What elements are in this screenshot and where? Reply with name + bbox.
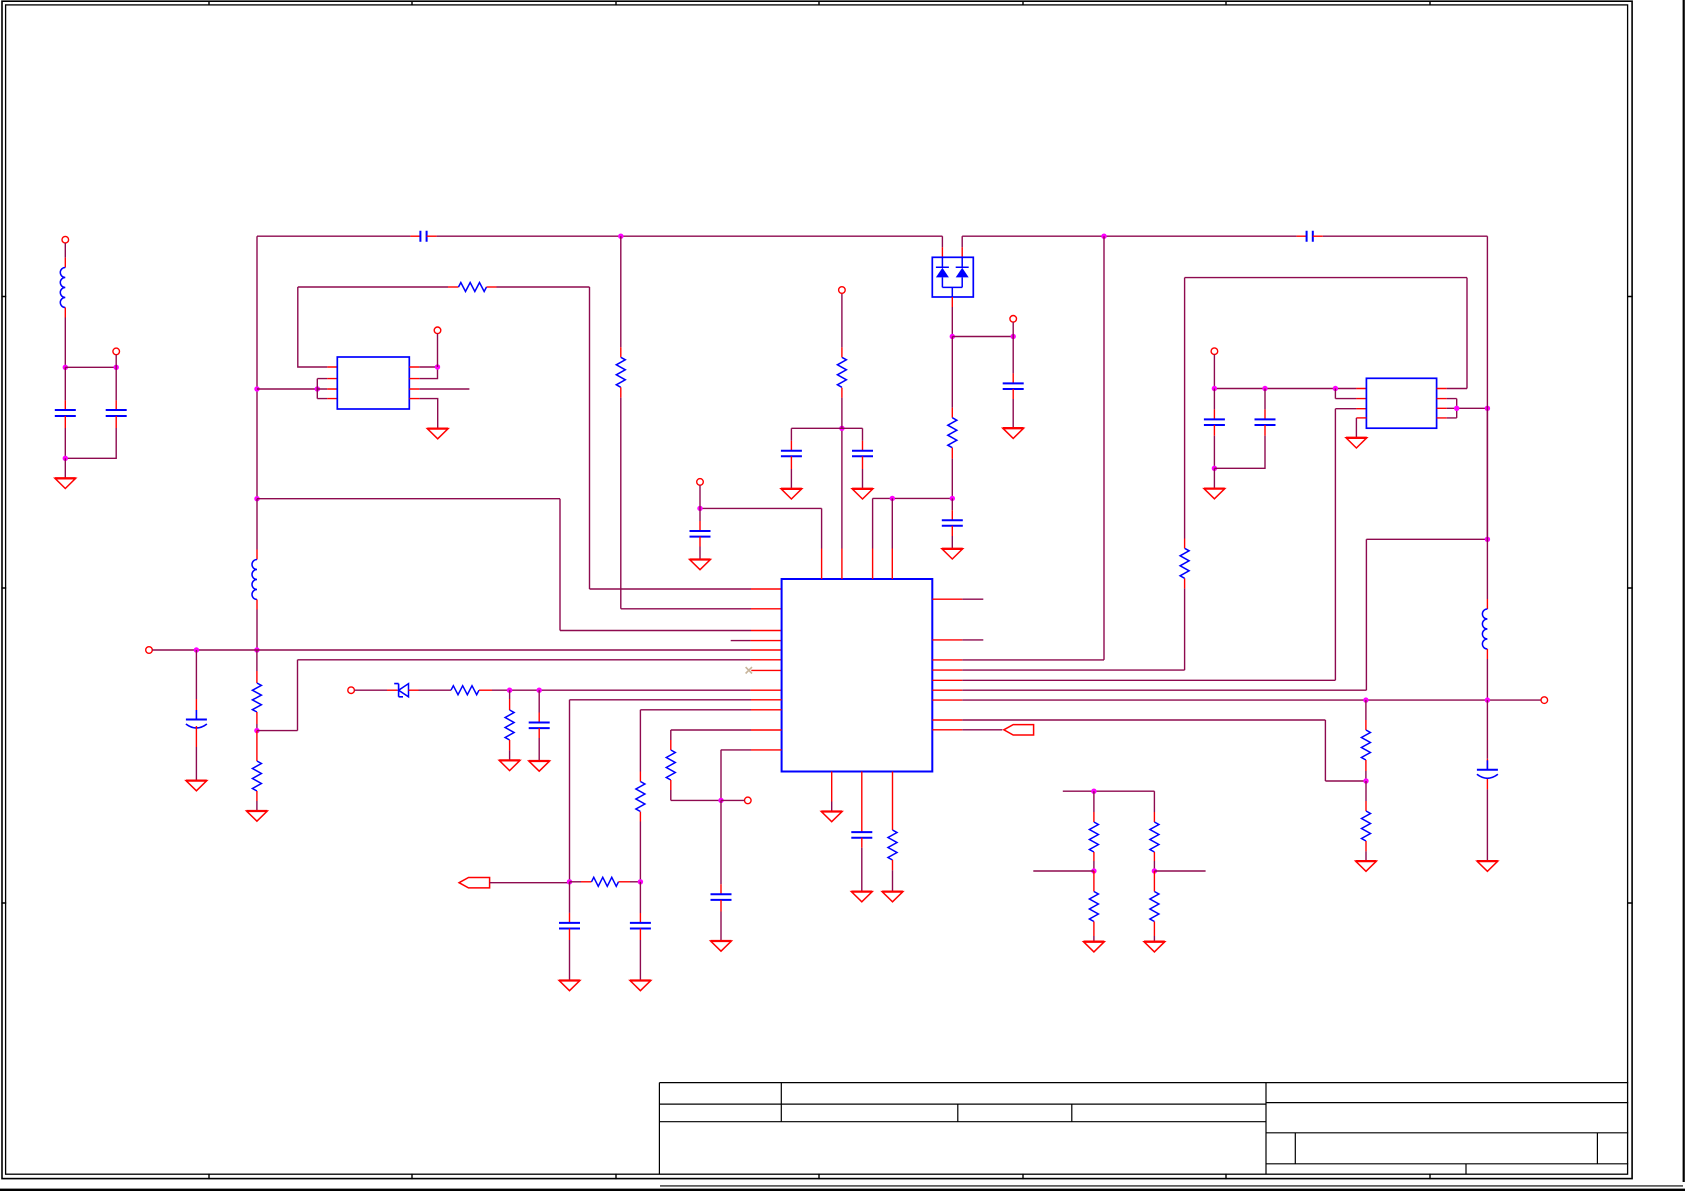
node junction (1212, 386, 1217, 391)
wire (256, 236, 258, 499)
wire (951, 526, 953, 536)
wire net rowR6 (962, 408, 1487, 690)
wire (410, 235, 420, 237)
inductor L3 (1482, 609, 1487, 649)
node junction (1454, 406, 1459, 411)
wire (720, 900, 722, 912)
wire top rail far right (1323, 235, 1488, 237)
capacitor C3 series (420, 231, 426, 242)
wire (479, 689, 492, 691)
ground (427, 429, 448, 439)
resistor R6 (451, 686, 479, 695)
resistor R16 (1089, 822, 1098, 852)
ground (559, 981, 580, 991)
pin stub (861, 772, 863, 833)
wire (873, 498, 953, 548)
connector J3 (1010, 316, 1017, 323)
resistor R15 (1362, 811, 1371, 841)
resistor R5 (252, 761, 261, 791)
wire (538, 690, 540, 712)
wire (952, 336, 1013, 338)
wire (1365, 700, 1367, 720)
wire feedback top (298, 286, 448, 288)
pin stub (932, 719, 962, 721)
wire (1486, 539, 1488, 599)
wire (1184, 539, 1186, 549)
pin stub (751, 749, 782, 751)
wire (892, 860, 894, 870)
pin stub (932, 669, 962, 671)
wire (257, 499, 751, 631)
capacitor C15 (851, 832, 872, 838)
connector J9 (839, 287, 846, 294)
wire (1012, 322, 1014, 336)
node junction (1152, 868, 1157, 873)
wire net U3 row1 (1214, 388, 1356, 390)
wire (115, 416, 117, 428)
wire (951, 448, 953, 459)
ground (1356, 861, 1377, 871)
connector J5 (146, 647, 153, 654)
wire top rail right (962, 235, 1296, 237)
resistor R8 (636, 782, 645, 812)
wire (1365, 781, 1367, 801)
wire (509, 690, 511, 699)
wire (670, 780, 672, 790)
pin stub (831, 772, 833, 802)
wire U2 pin stub free (419, 388, 469, 390)
wire U2 left loop (317, 379, 327, 399)
pin stub (891, 549, 893, 580)
capacitor C11 (690, 531, 711, 537)
wire net rowR4 (962, 588, 1184, 670)
wire (951, 498, 953, 510)
node junction (254, 496, 259, 501)
node junction (890, 496, 895, 501)
wire (256, 600, 258, 610)
wire net rowR5 (962, 409, 1335, 681)
pin stub (932, 689, 962, 691)
node junction (507, 688, 512, 693)
page bottom edge bar (0, 1186, 1685, 1191)
node junction (638, 879, 643, 884)
wire top rail mid (437, 235, 943, 237)
node junction (114, 365, 119, 370)
port P2 (459, 878, 490, 888)
node junction (194, 647, 199, 652)
IC U2 (337, 357, 409, 409)
wire (1213, 425, 1215, 436)
capacitor C12 (781, 451, 802, 457)
wire (1213, 468, 1215, 488)
connector J6 (348, 687, 355, 694)
wire (841, 347, 843, 357)
wire (790, 428, 792, 440)
pin stub (751, 669, 781, 671)
wire net row12 (721, 749, 751, 751)
port P1 (1004, 725, 1034, 735)
wire (962, 729, 1002, 731)
node junction (1363, 778, 1368, 783)
wire (862, 428, 864, 440)
wire (509, 740, 511, 750)
wire (437, 334, 439, 367)
capacitor C18 polarized (1477, 760, 1498, 778)
ground (851, 892, 872, 902)
wire net row5 (152, 649, 750, 651)
border zone ticks top (209, 1, 1430, 6)
node junction (254, 386, 259, 391)
IC U1 (782, 579, 933, 772)
wire U3 gnd pin (1356, 417, 1366, 419)
pin stub (932, 659, 962, 661)
resistor R13 (1180, 548, 1189, 578)
zener diode D2 (394, 684, 408, 697)
wire (1486, 408, 1488, 539)
connector J2 (113, 348, 120, 355)
wire (409, 689, 419, 691)
title block (659, 1083, 1628, 1175)
connector J1 (62, 236, 69, 243)
wire (720, 800, 722, 884)
wire (256, 791, 258, 801)
wire (1297, 235, 1307, 237)
pin stub (932, 729, 962, 731)
wire (1153, 791, 1155, 812)
wire stub row4 (731, 640, 751, 642)
wire (721, 799, 745, 801)
ground (55, 478, 76, 488)
wire (1063, 790, 1155, 792)
wire (1447, 407, 1488, 409)
wire (1033, 870, 1094, 872)
node junction (1101, 234, 1106, 239)
node junction (567, 879, 572, 884)
wire (619, 881, 631, 883)
node junction (63, 365, 68, 370)
node junction (697, 506, 702, 511)
capacitor C10 (630, 923, 651, 929)
ground (852, 489, 873, 499)
ground (186, 781, 207, 791)
ground (882, 892, 903, 902)
resistor R10 (592, 877, 619, 886)
wire (1486, 236, 1488, 408)
wire (700, 508, 822, 548)
wire (720, 750, 722, 801)
wire (1486, 649, 1488, 659)
border zone ticks left (1, 297, 6, 904)
pin stub (751, 709, 782, 711)
wire (1335, 408, 1356, 410)
wire (941, 236, 943, 247)
wire (195, 650, 197, 699)
pin stub (892, 772, 894, 831)
wire (639, 710, 641, 772)
wire (620, 387, 622, 397)
wire (257, 388, 317, 390)
pin stub (751, 630, 782, 632)
wire (1093, 922, 1095, 937)
pin stub (751, 588, 782, 590)
node junction (718, 798, 723, 803)
pin stub (751, 699, 782, 701)
wire net row6 (257, 660, 751, 731)
wire (64, 243, 66, 258)
wire (427, 235, 437, 237)
wire (1012, 337, 1014, 374)
wire (891, 498, 893, 548)
pin stubs U3 left (1356, 389, 1366, 409)
wire (862, 456, 864, 469)
wire (639, 812, 641, 822)
capacitor C8 (711, 894, 732, 900)
wire net row10 (640, 709, 751, 711)
ground (821, 812, 842, 822)
wire (699, 537, 701, 547)
page right edge bar (1683, 0, 1685, 1182)
wire (841, 398, 843, 429)
wire net rowR8 (962, 720, 1366, 781)
capacitor C14 (942, 520, 963, 526)
resistor R18 (1150, 822, 1159, 852)
wire (298, 287, 328, 367)
wire (569, 882, 571, 913)
resistor R9 (666, 750, 675, 780)
wire (639, 882, 641, 913)
node junction (254, 728, 259, 733)
wire (1264, 425, 1266, 436)
pin stub (932, 699, 962, 701)
resistor R14 (1361, 730, 1370, 760)
dual diode D1 (932, 257, 973, 297)
node junction (1363, 697, 1368, 702)
wire (64, 416, 66, 428)
pin stubs U2 right (409, 367, 419, 399)
connector J4 (434, 327, 441, 334)
resistor R4 (252, 683, 261, 712)
node junction (1091, 789, 1096, 794)
ground (630, 981, 651, 991)
wire (1313, 235, 1323, 237)
no-connect cross (746, 667, 752, 673)
ground (690, 560, 711, 570)
pin stub (932, 679, 962, 681)
capacitor C9 (559, 923, 580, 929)
capacitor C5 (1003, 383, 1024, 389)
pin stub (751, 649, 782, 651)
wire U2 row2 loop (1335, 389, 1356, 399)
resistor R3 (616, 357, 625, 387)
resistor R12 (888, 830, 897, 860)
wire (1486, 700, 1488, 759)
node junction (1485, 537, 1490, 542)
wire (590, 287, 752, 589)
resistor R19 (1150, 892, 1159, 922)
wire (569, 929, 571, 941)
wire (195, 726, 197, 747)
capacitor C13 (852, 451, 873, 457)
wire (419, 399, 437, 429)
connector J7 (745, 797, 752, 804)
capacitor C6 polarized (186, 710, 207, 728)
node junction (618, 234, 623, 239)
inductor L2 (252, 560, 257, 600)
resistor R17 (1089, 892, 1098, 922)
wire (1365, 841, 1367, 851)
wire (64, 318, 66, 368)
wire (490, 882, 570, 884)
wire (115, 355, 117, 368)
wire (115, 367, 117, 400)
wire (354, 689, 387, 691)
ground (499, 760, 520, 770)
wire (699, 485, 701, 508)
ground (1477, 861, 1498, 871)
resistor R2 (459, 283, 487, 292)
ground (1003, 428, 1024, 438)
resistor R7 (505, 710, 514, 740)
wire (1153, 922, 1155, 937)
pin stub (841, 549, 843, 580)
wire (64, 367, 66, 400)
node junction (254, 647, 259, 652)
wire (65, 366, 116, 368)
wire (1154, 870, 1205, 872)
pin stub (751, 659, 782, 661)
border zone ticks right (1627, 297, 1633, 904)
resistor R1 (948, 418, 957, 448)
resistor R11 (837, 357, 846, 387)
wire (1447, 399, 1457, 418)
node junction (537, 688, 542, 693)
node junction (435, 364, 440, 369)
wire (419, 367, 437, 379)
wire (1365, 760, 1367, 771)
wire (538, 728, 540, 738)
capacitor C1 (55, 410, 76, 416)
wire (64, 458, 66, 478)
wire (1093, 852, 1095, 861)
wire (951, 297, 953, 307)
ground (711, 941, 732, 951)
wire net row11 (671, 729, 751, 731)
node junction (1333, 386, 1338, 391)
ground (247, 811, 268, 821)
inductor L1 (60, 258, 65, 318)
wire (256, 712, 258, 724)
wire (961, 236, 963, 247)
wire (487, 286, 497, 288)
wire (791, 427, 862, 429)
wire (670, 730, 672, 740)
wire top rail left (257, 235, 410, 237)
wire (1213, 389, 1215, 410)
connector J8 (697, 479, 704, 486)
wire (831, 802, 833, 812)
node junction (1212, 466, 1217, 471)
wire (620, 236, 622, 347)
ground (1144, 942, 1165, 952)
wire (256, 731, 258, 761)
ground (529, 761, 550, 771)
wire stub (962, 639, 983, 641)
wire (1093, 791, 1095, 812)
wire (1153, 871, 1155, 892)
connector J11 (1211, 348, 1218, 355)
IC U3 (1366, 378, 1436, 428)
wire (861, 838, 863, 848)
ground (781, 489, 802, 499)
capacitor C17 (1255, 419, 1276, 425)
wire (256, 499, 258, 550)
wire net rowR3 (962, 236, 1104, 660)
wire (1264, 389, 1266, 410)
capacitor C16 (1204, 419, 1225, 425)
wire (841, 428, 843, 548)
ground (1346, 438, 1367, 448)
wire (1093, 871, 1095, 882)
pin stubs U3 right (1437, 389, 1447, 418)
wire (570, 881, 582, 883)
border zone ticks bottom (209, 1174, 1430, 1180)
wire (1153, 852, 1155, 861)
wire (1184, 578, 1186, 588)
node junction (1011, 334, 1016, 339)
node junction (950, 496, 955, 501)
pin stub (751, 729, 782, 731)
wire (790, 456, 792, 469)
node junction (63, 456, 68, 461)
wire (951, 337, 953, 408)
wire stub (962, 598, 983, 600)
node junction (839, 426, 844, 431)
ground (1084, 942, 1105, 952)
pin stubs U2 left (327, 367, 337, 399)
wire (1486, 779, 1488, 789)
capacitor C7 (529, 723, 550, 729)
node junction (1485, 697, 1490, 702)
wire (1012, 389, 1014, 399)
pin stub (821, 549, 823, 580)
wire (1213, 355, 1215, 389)
pin stub (872, 549, 874, 580)
node junction (1262, 386, 1267, 391)
wire net row9 (570, 700, 752, 882)
node junction (315, 386, 320, 391)
capacitor C4 series (1307, 231, 1313, 242)
node junction (950, 334, 955, 339)
ground (1204, 489, 1225, 499)
wire (256, 650, 258, 671)
wire net rowR7 (962, 699, 1541, 701)
pin stub (751, 689, 782, 691)
wire (1447, 388, 1467, 390)
node junction (1091, 868, 1096, 873)
node junction (1485, 406, 1490, 411)
wire (639, 929, 641, 941)
pin stub (751, 608, 782, 610)
connector J10 (1541, 697, 1548, 704)
pin stub (932, 598, 962, 600)
capacitor C2 (106, 410, 127, 416)
wire (699, 508, 701, 521)
ground (942, 549, 963, 559)
pin stub (932, 639, 962, 641)
